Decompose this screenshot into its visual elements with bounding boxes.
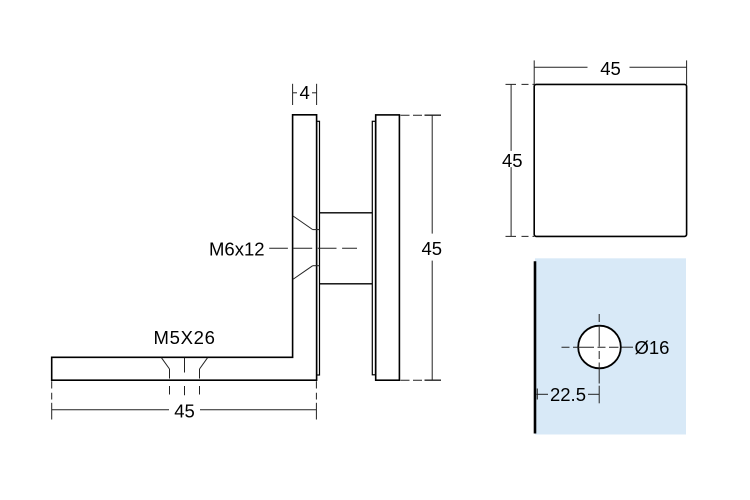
left view: outer clamp plate bbox=[376, 115, 400, 380]
top view dimension 45 horizontal: extension lines bbox=[534, 60, 686, 84]
left view: bushing bottom edge bbox=[320, 283, 373, 285]
hole center line horizontal bbox=[562, 346, 619, 348]
dimension 22.5: dimension line bbox=[536, 393, 599, 395]
left view: L-bracket plate outline bbox=[52, 115, 317, 380]
hole center line vertical bbox=[598, 314, 600, 384]
svg-text:22.5: 22.5 bbox=[550, 384, 586, 405]
top view dimension 45 vertical: dimension line bbox=[510, 84, 512, 236]
dimension 45 bottom: left extension bbox=[51, 381, 53, 419]
svg-text:4: 4 bbox=[299, 82, 309, 103]
svg-text:45: 45 bbox=[502, 150, 523, 171]
hole circle Ø16 bbox=[578, 326, 621, 369]
left view: countersink cone bottom bbox=[293, 266, 320, 280]
glass edge thick line bbox=[534, 261, 537, 433]
left view: inner gasket strip bbox=[317, 121, 320, 375]
glass panel bbox=[535, 258, 686, 434]
top view: square plate bbox=[534, 84, 686, 236]
left view: bushing top edge bbox=[320, 212, 373, 214]
dimension 22.5: left tick bbox=[536, 389, 538, 400]
left view: screw center line bbox=[269, 247, 357, 249]
dimension 4: extension lines bbox=[293, 84, 317, 105]
dimension 45 right: bottom extension bbox=[401, 379, 442, 381]
svg-text:M6x12: M6x12 bbox=[209, 239, 265, 260]
dimension 45 bottom: dimension line bbox=[52, 409, 317, 411]
dimension 45 right: top extension bbox=[401, 114, 442, 116]
hidden screw M5X26: head cone bbox=[162, 358, 208, 369]
left view: countersink cone top bbox=[293, 216, 320, 230]
hidden screw M5X26: shank lines bbox=[170, 369, 200, 395]
label Ø16 leader bbox=[622, 346, 634, 348]
left view: outer gasket strip bbox=[372, 121, 375, 374]
svg-text:45: 45 bbox=[174, 401, 195, 422]
svg-text:45: 45 bbox=[600, 58, 621, 79]
dimension 45 right: dimension line bbox=[431, 115, 433, 380]
top view dimension 45 vertical: extension lines bbox=[506, 84, 535, 236]
hidden screw M5X26: center line bbox=[184, 358, 186, 396]
dimension 4: dimension line bbox=[293, 92, 317, 94]
dimension 45 bottom: right extension bbox=[315, 381, 317, 419]
top view dimension 45 horizontal: dimension line bbox=[534, 66, 686, 68]
svg-text:Ø16: Ø16 bbox=[635, 337, 670, 358]
svg-text:M5X26: M5X26 bbox=[154, 327, 216, 348]
svg-text:45: 45 bbox=[422, 238, 443, 259]
